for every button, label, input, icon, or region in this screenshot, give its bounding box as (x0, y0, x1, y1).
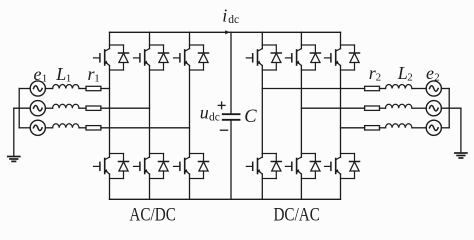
resistor r1 phase c (86, 126, 101, 130)
antiparallel diode VD12 (341, 154, 360, 179)
wire left neutral bus (18, 89, 20, 128)
svg-text:L: L (55, 64, 66, 84)
label L2 (397, 63, 413, 83)
wire DC/AC leg 3 to r2 (341, 127, 365, 129)
wire left phase a to source (19, 88, 30, 90)
svg-text:1: 1 (94, 73, 100, 85)
svg-text:C: C (244, 107, 257, 127)
wire r2 to L2 c (380, 127, 386, 129)
antiparallel diode VD7 (262, 45, 281, 70)
minus polarity mark (220, 129, 227, 131)
wire DC/AC leg 3 midline (340, 66, 342, 158)
svg-text:L: L (397, 63, 408, 83)
wire DC/AC leg 2 midline (300, 66, 302, 158)
label e1 (34, 64, 48, 84)
wire r2 to L2 b (380, 107, 386, 109)
inductor L2 phase c (386, 124, 412, 128)
antiparallel diode VD11 (341, 45, 360, 70)
inductor L1 phase a (53, 85, 79, 89)
svg-text:1: 1 (66, 72, 72, 84)
wire r1 to AC/DC leg 3 (101, 127, 190, 129)
wire capacitor bottom lead (230, 121, 232, 200)
wire e1c to L1 (45, 127, 52, 129)
wire e2 a to right bus (441, 88, 449, 90)
wire AC/DC leg 2 midline (149, 66, 151, 158)
label C (244, 107, 257, 127)
antiparallel diode VD1 (110, 45, 129, 70)
wire right neutral bus (448, 89, 450, 128)
resistor r2 phase c (365, 126, 380, 130)
wire DC/AC leg 3 bottom drop (340, 174, 342, 199)
IGBT VT8 (246, 157, 262, 174)
AC source e1 phase a (30, 81, 45, 96)
wire AC/DC leg 2 top drop (149, 32, 151, 48)
wire AC/DC leg 1 midline (109, 66, 111, 158)
antiparallel diode VD10 (301, 154, 320, 179)
i_dc current arrow (225, 30, 230, 34)
wire DC/AC leg 1 midline (261, 66, 263, 158)
label i_dc (222, 6, 239, 27)
resistor r2 phase b (365, 106, 380, 110)
AC source e1 phase c (30, 120, 45, 135)
wire left phase c to source (19, 127, 30, 129)
inductor L2 phase a (386, 85, 412, 89)
wire L1 to r1 c (79, 127, 86, 129)
wire AC/DC leg 2 bottom drop (149, 174, 151, 199)
wire e2 c to right bus (441, 127, 449, 129)
antiparallel diode VD2 (110, 154, 129, 179)
wire L2 to e2 c (412, 127, 426, 129)
AC source e2 phase b (426, 101, 441, 116)
svg-text:2: 2 (434, 72, 440, 84)
IGBT VT1 (94, 49, 110, 66)
IGBT VT4 (134, 157, 150, 174)
wire positive DC rail (110, 31, 341, 33)
IGBT VT2 (94, 157, 110, 174)
wire DC/AC leg 2 to r2 (301, 107, 364, 109)
svg-text:i: i (222, 6, 227, 26)
wire DC/AC leg 2 top drop (300, 32, 302, 48)
antiparallel diode VD8 (262, 154, 281, 179)
wire negative DC rail (110, 198, 341, 200)
IGBT VT9 (285, 49, 301, 66)
wire AC/DC leg 1 bottom drop (109, 174, 111, 199)
wire r1 to AC/DC leg 1 (101, 88, 110, 90)
wire e1b to L1 (45, 107, 52, 109)
svg-text:2: 2 (376, 72, 382, 84)
IGBT VT3 (134, 49, 150, 66)
wire r1 to AC/DC leg 2 (101, 107, 150, 109)
IGBT VT12 (325, 157, 341, 174)
wire e1a to L1 (45, 88, 52, 90)
resistor r1 phase b (86, 106, 101, 110)
wire AC/DC leg 3 midline (189, 66, 191, 158)
wire DC/AC leg 3 top drop (340, 32, 342, 48)
IGBT VT5 (174, 49, 190, 66)
antiparallel diode VD5 (190, 45, 209, 70)
label r1 (88, 64, 100, 85)
wire L1 to r1 a (79, 88, 86, 90)
svg-text:2: 2 (407, 72, 413, 84)
wire L2 to e2 a (412, 88, 426, 90)
inductor L1 phase c (53, 124, 79, 128)
IGBT VT11 (325, 49, 341, 66)
inductor L1 phase b (53, 104, 79, 108)
antiparallel diode VD9 (301, 45, 320, 70)
AC source e2 phase c (426, 120, 441, 135)
wire DC/AC leg 1 top drop (261, 32, 263, 48)
wire e2 b to right bus (441, 107, 461, 109)
wire AC/DC leg 3 top drop (189, 32, 191, 48)
wire left phase b to source (14, 107, 30, 109)
wire DC/AC leg 1 bottom drop (261, 174, 263, 199)
plus polarity mark (218, 102, 225, 109)
svg-text:DC/AC: DC/AC (273, 205, 320, 226)
svg-text:u: u (200, 103, 209, 123)
wire DC/AC leg 1 to r2 (262, 88, 364, 90)
antiparallel diode VD4 (150, 154, 169, 179)
antiparallel diode VD3 (150, 45, 169, 70)
svg-text:dc: dc (228, 14, 239, 26)
label DC/AC (273, 205, 320, 226)
label L1 (55, 64, 71, 84)
wire capacitor top lead (230, 32, 232, 113)
label e2 (426, 63, 440, 83)
antiparallel diode VD6 (190, 154, 209, 179)
AC source e2 phase a (426, 81, 441, 96)
wire AC/DC leg 1 top drop (109, 32, 111, 48)
ground right (455, 108, 467, 158)
wire L2 to e2 b (412, 107, 426, 109)
IGBT VT6 (174, 157, 190, 174)
inductor L2 phase b (386, 104, 412, 108)
svg-text:1: 1 (42, 72, 48, 84)
ground left (8, 108, 20, 161)
capacitor C (223, 114, 240, 120)
IGBT VT10 (285, 157, 301, 174)
wire L1 to r1 b (79, 107, 86, 109)
label AC/DC (129, 205, 176, 226)
svg-text:AC/DC: AC/DC (129, 205, 176, 226)
svg-text:e: e (426, 63, 434, 83)
resistor r2 phase a (365, 86, 380, 90)
wire AC/DC leg 3 bottom drop (189, 174, 191, 199)
svg-text:dc: dc (209, 111, 220, 123)
IGBT VT7 (246, 49, 262, 66)
svg-text:e: e (34, 64, 42, 84)
AC source e1 phase b (30, 101, 45, 116)
label u_dc (200, 103, 220, 124)
resistor r1 phase a (86, 86, 101, 90)
wire r2 to L2 a (380, 88, 386, 90)
wire DC/AC leg 2 bottom drop (300, 174, 302, 199)
label r2 (369, 63, 381, 84)
